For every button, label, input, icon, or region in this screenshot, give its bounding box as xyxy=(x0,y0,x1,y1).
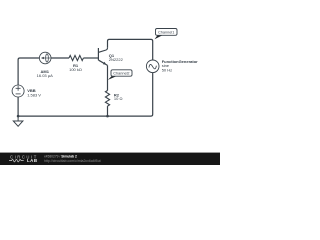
svg-text:16.03 µA: 16.03 µA xyxy=(37,73,53,78)
wire: VBB bottom to bottom rail xyxy=(17,97,19,116)
ground xyxy=(13,116,23,126)
resistor R1 xyxy=(69,55,83,60)
node junction dot R2/bottom rail xyxy=(106,115,109,118)
footer top edge xyxy=(0,152,220,154)
resistor R2 xyxy=(105,91,109,107)
ammeter AM1 xyxy=(39,52,51,64)
function generator FG1 xyxy=(146,60,159,73)
wire: R1 to Q1 base xyxy=(83,57,98,59)
logo CircuitLab wordmark xyxy=(9,155,38,164)
voltage source VBB xyxy=(12,85,24,97)
transistor Q1 xyxy=(98,48,107,66)
svg-text:Channel1: Channel1 xyxy=(158,31,174,35)
svg-text:http://circuitlab.com/c/mla2cx: http://circuitlab.com/c/mla2cx6a6f5ut xyxy=(44,159,101,163)
footer bar xyxy=(0,153,220,165)
svg-text:Channel2: Channel2 xyxy=(113,72,129,76)
wire: collector lead, top rail, down to function generator top xyxy=(108,39,153,60)
svg-text:1.583 V: 1.583 V xyxy=(27,92,41,97)
wire: emitter lead down to R2 top xyxy=(107,65,109,90)
svg-text:x4580279 / Simulab 2: x4580279 / Simulab 2 xyxy=(44,154,77,158)
svg-text:10 Ω: 10 Ω xyxy=(114,96,123,101)
wire: ammeter to R1 xyxy=(51,57,69,59)
svg-text:50 Hz: 50 Hz xyxy=(162,67,172,72)
svg-text:LAB: LAB xyxy=(27,158,38,163)
wire: bottom rail to function generator bottom xyxy=(18,73,153,117)
node Channel2 probe flag xyxy=(108,70,132,80)
wire: R2 bottom to bottom rail xyxy=(107,106,109,116)
node Channel1 probe flag xyxy=(155,29,178,40)
wire: mid wire left segment and left rail down to VBB top xyxy=(18,58,39,85)
svg-text:100 kΩ: 100 kΩ xyxy=(69,67,82,72)
canvas background xyxy=(0,0,220,165)
svg-text:2N2222: 2N2222 xyxy=(109,57,124,62)
node junction dot at ground xyxy=(17,115,20,118)
